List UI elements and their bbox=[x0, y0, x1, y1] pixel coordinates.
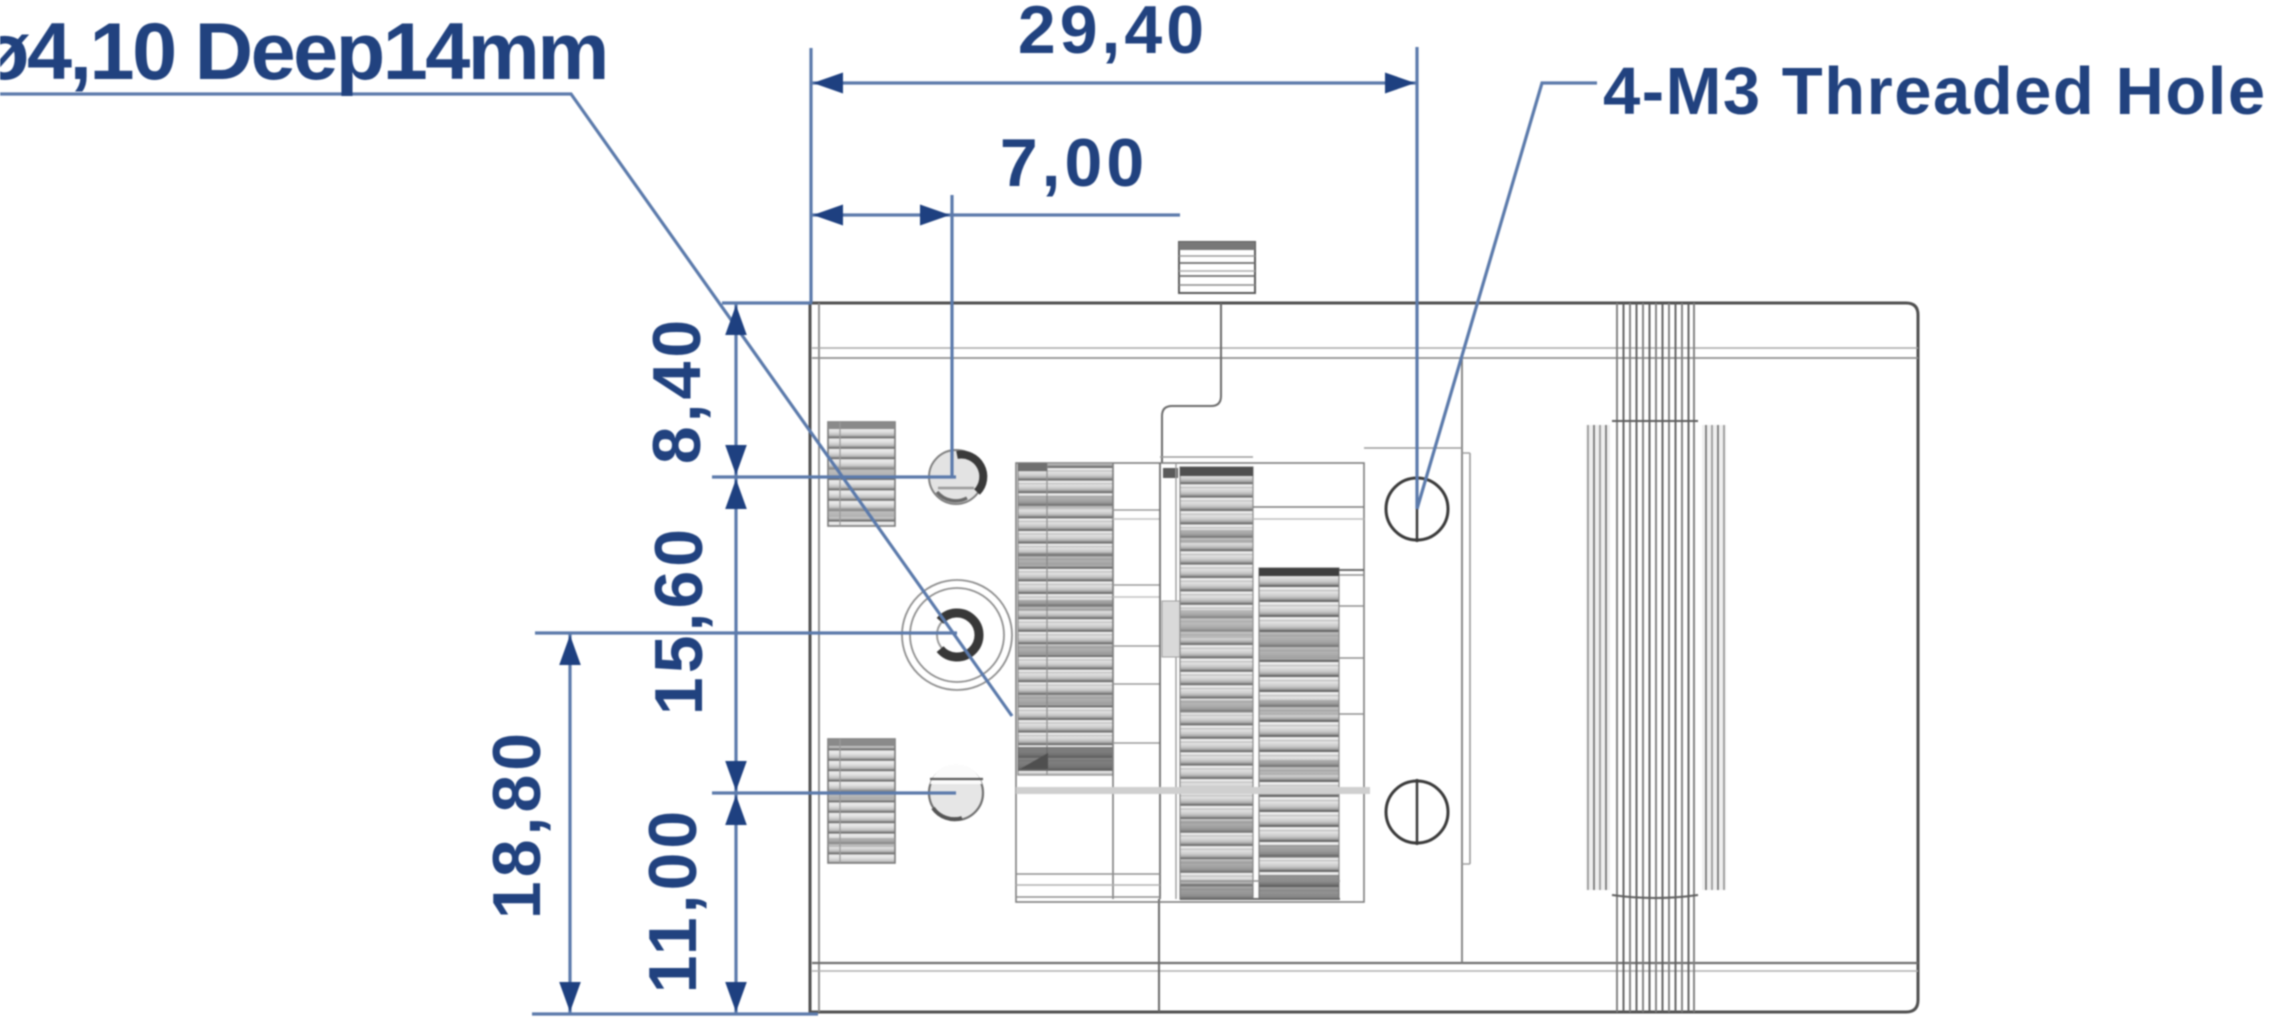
svg-text:15,60: 15,60 bbox=[641, 525, 717, 715]
tick y477 bbox=[712, 475, 956, 478]
center bore ø4,10 bbox=[902, 580, 1012, 690]
leader ø4,10 bbox=[0, 94, 1012, 716]
motor plate edge bbox=[1364, 357, 1470, 963]
svg-text:8,40: 8,40 bbox=[639, 316, 715, 464]
gear column C bbox=[1259, 568, 1339, 899]
M3 threaded hole top right bbox=[1386, 476, 1448, 542]
body face line y971 bbox=[812, 970, 1918, 972]
dimension 29,40 bbox=[811, 0, 1417, 509]
motor shaft core bbox=[1617, 303, 1694, 1012]
left dimension chain line bbox=[734, 303, 737, 1014]
dimension 7,00 bbox=[812, 125, 1180, 477]
carrier white strip bbox=[1113, 463, 1180, 899]
sun gear top detail bbox=[1160, 456, 1253, 458]
top connector block bbox=[1179, 242, 1255, 293]
pale housing band bbox=[1016, 787, 1370, 794]
lower mount hole bbox=[929, 764, 983, 820]
tick y793 bbox=[712, 791, 956, 794]
filament path step line bbox=[1162, 303, 1221, 463]
svg-text:29,40: 29,40 bbox=[1018, 0, 1208, 68]
leader 4-M3 bbox=[1417, 83, 1597, 509]
svg-text:11,00: 11,00 bbox=[635, 807, 711, 993]
body left inner edge bbox=[818, 303, 820, 1012]
body face line y348 bbox=[812, 347, 1918, 349]
svg-text:18,80: 18,80 bbox=[479, 729, 555, 919]
dimension 18,80 line bbox=[568, 633, 571, 1014]
upper mount hole bbox=[929, 450, 983, 504]
bottom blue baseline bbox=[532, 1012, 818, 1015]
gear cluster frame bbox=[1016, 463, 1364, 902]
cluster bottom lines bbox=[1016, 874, 1340, 899]
body outline bbox=[810, 303, 1918, 1012]
M3 threaded hole bottom right bbox=[1386, 779, 1448, 845]
svg-text:7,00: 7,00 bbox=[1000, 125, 1148, 201]
tick y303 bbox=[722, 301, 812, 304]
shaft sleeve bbox=[1586, 421, 1726, 898]
arrows 18,80 bbox=[559, 635, 581, 665]
svg-text:4-M3 Threaded Hole: 4-M3 Threaded Hole bbox=[1603, 54, 2267, 129]
svg-text:ø4,10 Deep14mm: ø4,10 Deep14mm bbox=[0, 7, 607, 97]
arrows 8,40 bbox=[725, 305, 747, 335]
arrows 15,60 bbox=[725, 479, 747, 509]
arrows 11,00 bbox=[725, 795, 747, 825]
body face line y358 bbox=[812, 357, 1918, 359]
tick y633 bbox=[535, 631, 957, 634]
gear column A bbox=[1018, 463, 1113, 775]
gear column B bbox=[1180, 467, 1253, 899]
upper left idler gear bbox=[828, 422, 895, 526]
lower left idler gear bbox=[828, 739, 895, 863]
ring gear connector lines bbox=[1253, 507, 1364, 714]
body face line y963 bbox=[812, 962, 1918, 964]
center line bottom bbox=[1158, 899, 1160, 1012]
